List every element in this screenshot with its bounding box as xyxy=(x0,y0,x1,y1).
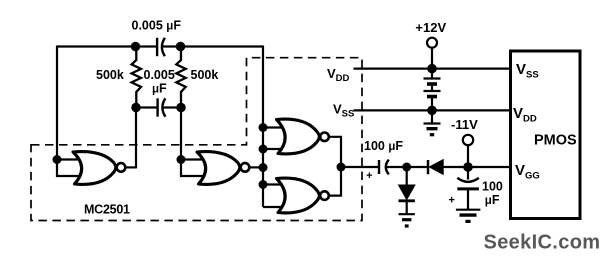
wire V_DD to PMOS V_SS xyxy=(354,67,511,69)
wire gate3 top input stub xyxy=(263,126,285,128)
node C1 right xyxy=(176,42,186,52)
capacitor C1 0.005uF xyxy=(157,38,165,56)
label + C3 xyxy=(366,170,372,182)
svg-text:+: + xyxy=(366,170,372,182)
label uF C4 xyxy=(485,193,500,207)
capacitor C2 0.005uF xyxy=(136,98,181,116)
svg-text:μF: μF xyxy=(485,193,500,207)
node gate1 input xyxy=(53,155,62,164)
node gates3-4 output xyxy=(337,163,346,172)
svg-text:+: + xyxy=(449,195,455,207)
watermark SeekIC.com xyxy=(484,232,601,254)
label 100uF C3 xyxy=(364,139,403,153)
wire gate1 output xyxy=(126,166,137,168)
ground under D1 xyxy=(399,201,415,226)
wire output node to C3 xyxy=(341,166,379,168)
NOR gate U1B (MC2501) xyxy=(197,152,249,185)
NOR gate U1D (MC2501) xyxy=(277,178,329,213)
node VGG xyxy=(463,162,473,172)
node bus gate2 output xyxy=(259,163,268,172)
ground under battery xyxy=(424,110,441,134)
PMOS block xyxy=(511,51,581,219)
diode D2 series xyxy=(428,160,443,175)
-11V terminal xyxy=(463,135,473,167)
wire gate1 top input stub xyxy=(57,158,82,160)
svg-text:μF: μF xyxy=(152,82,167,96)
label V_SS left xyxy=(333,102,354,120)
wire gate4 top input stub xyxy=(263,183,285,185)
wire gate1 bottom input L xyxy=(57,160,82,177)
label V_DD left xyxy=(327,66,350,84)
label -11V xyxy=(451,117,478,132)
MC2501 dashed outline xyxy=(31,58,362,221)
wire gate3 output down to node xyxy=(329,137,341,167)
label MC2501 xyxy=(84,203,130,217)
svg-text:500k: 500k xyxy=(96,68,124,82)
wire C3 to D2 xyxy=(387,166,429,168)
wire gate4 output up to node xyxy=(329,167,341,196)
battery B1 between supply rails xyxy=(424,69,441,111)
svg-text:SeekIC.com: SeekIC.com xyxy=(484,232,601,254)
node bus gate3 input B xyxy=(259,145,268,154)
svg-text:MC2501: MC2501 xyxy=(84,203,130,217)
wire gate2 output to bus xyxy=(250,166,264,168)
wire gate2 bottom input L xyxy=(181,160,206,177)
wire left vertical xyxy=(56,46,58,160)
wire input bus vertical xyxy=(262,46,264,208)
node C1 left xyxy=(131,42,141,52)
label + C4 xyxy=(449,195,455,207)
wire gate2 top input stub xyxy=(181,158,206,160)
capacitor C3 100uF xyxy=(379,160,389,175)
ground under C4 xyxy=(456,210,481,222)
svg-text:100 μF: 100 μF xyxy=(364,139,403,153)
node bus gate3 input A xyxy=(259,123,268,132)
resistor R1 500k xyxy=(132,47,141,108)
label 0.005 middle xyxy=(144,68,175,82)
node C2 right xyxy=(176,103,186,113)
wire vertical R2-bottom to gate2 input xyxy=(180,108,182,160)
label 500k left xyxy=(96,68,124,82)
svg-text:0.005 μF: 0.005 μF xyxy=(132,19,182,33)
label 500k right xyxy=(191,68,219,82)
label +12V xyxy=(415,20,446,35)
diode D1 to ground xyxy=(399,167,415,201)
wire gate3 bottom input stub xyxy=(263,148,285,150)
resistor R2 500k xyxy=(176,47,185,108)
NOR gate U1C (MC2501) xyxy=(277,119,329,154)
node bus gate4 input A xyxy=(259,180,268,189)
svg-text:+12V: +12V xyxy=(415,20,446,35)
node wire2 battery xyxy=(427,106,437,116)
svg-text:0.005: 0.005 xyxy=(144,68,175,82)
NOR gate U1A (MC2501) xyxy=(73,152,125,185)
wire D2 to VGG node xyxy=(443,166,510,168)
node C2 left xyxy=(131,103,141,113)
label 0.005 uF top xyxy=(132,19,182,33)
svg-text:-11V: -11V xyxy=(451,117,478,132)
svg-text:PMOS: PMOS xyxy=(534,133,577,149)
label uF middle xyxy=(152,82,167,96)
svg-text:100: 100 xyxy=(482,179,503,193)
wire gate4 bottom input L xyxy=(263,206,285,208)
capacitor C4 100uF xyxy=(457,167,479,210)
node D1 top xyxy=(402,163,411,172)
+12V terminal xyxy=(427,38,437,69)
node gate2 input xyxy=(177,155,186,164)
wire V_SS to PMOS V_DD xyxy=(354,109,511,111)
wire vertical C2-left to gate1 output xyxy=(135,108,137,169)
wire top-left horizontal xyxy=(57,45,157,47)
wire top-right horizontal xyxy=(162,45,263,47)
svg-text:500k: 500k xyxy=(191,68,219,82)
label 100 C4 xyxy=(482,179,503,193)
node wire1 +12V xyxy=(427,64,437,74)
